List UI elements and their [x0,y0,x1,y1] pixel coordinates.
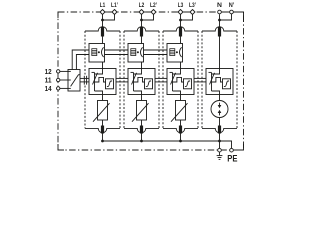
node L1 junction [101,19,104,22]
module 1 left dashed edge [84,31,86,75]
svg-text:N’: N’ [229,2,235,9]
wire spark gap box to control box module 3 [180,62,182,69]
contact K1 stub 11 [68,79,71,81]
wire pin to control box module 4 [219,37,221,69]
spark gap unit U3 (triggered spark gap box) [167,44,183,63]
spark gap U3 counter electrode arc [180,47,182,57]
wire N&#39; link [220,14,232,20]
control unit box module 1 [89,69,116,95]
svg-text:L1: L1 [100,2,106,9]
svg-text:L3’: L3’ [189,2,196,9]
control box module 2 bottom link [134,91,142,95]
wire control link 1-2 lower [116,81,128,83]
module 1 plug-in contact bottom (pin) [101,126,104,134]
control unit box module 2 [128,69,155,95]
wire control link 2-3 upper [155,77,167,79]
wire control link 2-3 lower [155,81,167,83]
spark gap U2 electrode tip [137,51,139,53]
wire control box to varistor module 1 [102,95,104,101]
control box module 1 disconnector pole [94,73,96,92]
enclosure corner top-right [232,12,244,22]
wire control link 3-4 lower [194,81,206,83]
module 1 top edge with socket arch [85,27,120,31]
terminal PE [218,148,222,152]
wire L2 terminal drop [141,14,143,27]
module 2 right dashed edge [158,31,160,128]
wire bottom pin to PE bus module 3 [180,134,182,142]
wire trigger link U2-U3 lower [144,54,168,56]
module 2 top edge with socket arch [124,27,159,31]
wire trigger feed lower [76,55,89,70]
control box module 4 disconnector blade [210,73,215,85]
spark gap unit U2 (triggered spark gap box) [128,44,144,63]
module 2 plug-in contact top (pin) [140,27,143,37]
spark gap U2 trigger stack [131,49,136,56]
N-PE spark gap F4 [211,101,228,118]
control box module 3 disconnector blade [171,73,176,85]
control box module 1 entry wire [95,69,103,75]
enclosure corner bottom-right [238,144,244,150]
control box module 4 trigger element [223,79,231,89]
terminal 14 [57,87,60,90]
wire L1 terminal drop [102,14,104,27]
module 4 right dashed edge [236,31,238,128]
wire trigger feed upper [72,50,89,70]
terminal L3 [178,10,183,15]
module 3 plug-in contact bottom (pin) [179,126,182,134]
wire signal coupling lower [80,81,89,83]
module 1 plug-in contact top (pin) [101,27,104,37]
control box module 1 disconnector tick [92,71,95,73]
terminal L3&#39; [190,10,195,15]
module 4 top edge with socket arch [202,27,237,31]
control box module 3 impedance step [173,77,184,82]
wire L1&#39; link [103,14,115,20]
wire control box to N-PE spark gap [219,95,221,101]
wire terminal 11 to contact box [60,79,68,81]
enclosure corner top-left [58,12,64,18]
svg-text:L1’: L1’ [111,2,118,9]
svg-text:L2: L2 [139,2,145,9]
wire control link 3-4 upper [194,77,206,79]
enclosure corner bottom-left [58,144,64,150]
varistor RV3 [176,101,186,121]
module 3 top edge with socket arch [163,27,198,31]
coupler bar right [86,76,88,85]
wire spark gap box to control box module 1 [102,62,104,69]
terminal PE&#39; [230,148,234,152]
node L3 junction [179,19,182,22]
wire pin to spark gap box module 3 [180,37,182,44]
wire trigger link U1-U2 lower [105,54,129,56]
control box module 4 disconnector pole [211,73,213,92]
wire varistor to bottom pin module 1 [102,120,104,126]
device enclosure (dash-dot boundary) [58,12,244,150]
wire control link 1-2 upper [116,77,128,79]
control box module 2 disconnector blade [132,73,137,85]
wire PE branch [220,141,232,148]
control box module 1 bottom link [95,91,103,95]
module 4 plug-in contact top (pin) [218,27,221,37]
contact K1 changeover blade [71,75,79,87]
control box module 2 entry wire [134,69,142,75]
wire bottom pin to PE bus module 2 [141,134,143,142]
wire pin to spark gap box module 2 [141,37,143,44]
module 3 left dashed edge [162,31,164,128]
terminal 11 [57,78,60,81]
wire signal coupling upper [80,77,89,79]
spark gap U2 counter electrode arc [141,47,143,57]
module 3 right dashed edge [197,31,199,128]
wire L3&#39; link [181,14,193,20]
coupler bar left [83,76,85,85]
wire terminal 12 to contact box [60,70,68,72]
control box module 3 trigger element [184,79,192,89]
control box module 4 entry wire [212,69,220,75]
control box module 4 impedance step [212,77,223,82]
svg-text:PE: PE [227,154,237,164]
contact K1 stub 12 [68,70,71,72]
module 2 plug-in contact bottom (pin) [140,126,143,134]
wire top edge solid link N-N' [220,11,232,13]
svg-text:14: 14 [45,84,52,93]
control box module 2 disconnector tick [131,71,134,73]
control unit box module 4 [206,69,233,95]
control box module 3 disconnector pole [172,73,174,92]
svg-text:L2’: L2’ [150,2,157,9]
contact K1 stub 14 [68,87,71,89]
module 1 right dashed edge [119,31,121,128]
control box module 3 entry wire [173,69,181,75]
control box module 3 bottom link [173,91,181,95]
ground symbol [219,152,221,155]
wire bottom pin to PE bus module 1 [102,134,104,142]
node L2 junction [140,19,143,22]
wire N-PE spark gap to bottom pin [219,118,221,126]
spark gap U1 trigger stack [92,49,97,56]
varistor RV2 [137,101,147,121]
wire PE drop [219,141,221,148]
spark gap U1 electrode tip [98,51,100,53]
control box module 2 impedance step [134,77,145,82]
control box module 2 trigger element [145,79,153,89]
wire varistor to bottom pin module 3 [180,120,182,126]
wire PE bus [103,140,220,142]
terminal N&#39; [230,10,234,14]
module 3 plug-in contact top (pin) [179,27,182,37]
wire control box to varistor module 2 [141,95,143,101]
node N junction [218,19,221,22]
wire L2&#39; link [142,14,154,20]
terminal L1&#39; [112,10,117,15]
control unit box module 3 [167,69,194,95]
wire L3 terminal drop [180,14,182,27]
control box module 4 disconnector tick [209,71,212,73]
wire trigger link U2-U3 upper [144,49,168,51]
wire control box to varistor module 3 [180,95,182,101]
terminal L2&#39; [151,10,156,15]
wire pin to spark gap box module 1 [102,37,104,44]
wire top edge solid link L1-L1' [103,11,115,13]
module 2 bottom edge with socket arch [124,128,159,132]
remote signalling contact box K1 [68,70,80,92]
spark gap U1 counter electrode arc [102,47,104,57]
module 2 left dashed edge [123,31,125,128]
control box module 1 impedance step [95,77,106,82]
terminal L2 [139,10,144,15]
wire top edge solid link L3-L3' [181,11,193,13]
control box module 1 trigger element [106,79,114,89]
wire terminal 14 to contact box [60,87,68,89]
module 3 bottom edge with socket arch [163,128,198,132]
varistor RV1 [98,101,108,121]
terminal 12 [57,70,60,73]
svg-text:N: N [217,2,222,9]
wire spark gap box to control box module 2 [141,62,143,69]
node PE bus junction module 1 [101,140,104,143]
terminal N [218,10,222,14]
control box module 1 disconnector blade [93,73,98,85]
spark gap U3 trigger stack [170,49,175,56]
wire trigger link U1-U2 upper [105,49,129,51]
node PE bus junction module 2 [140,140,143,143]
module 4 plug-in contact bottom (pin) [218,126,221,134]
module 1 bottom edge with socket arch [85,128,120,132]
module 4 bottom edge with socket arch [202,128,237,132]
contact K1 pole stub [78,74,80,76]
control box module 2 disconnector pole [133,73,135,92]
control box module 4 bottom link [212,91,220,95]
control box module 3 disconnector tick [170,71,173,73]
spark gap U3 electrode tip [176,51,178,53]
wire varistor to bottom pin module 2 [141,120,143,126]
wire bottom pin to PE bus module 4 [219,134,221,142]
spark gap unit U1 (triggered spark gap box) [89,44,105,63]
svg-text:L3: L3 [178,2,184,9]
wire top edge solid link L2-L2' [142,11,154,13]
wire N terminal drop [219,14,221,27]
node PE bus junction module 4 [218,140,221,143]
node PE bus junction module 3 [179,140,182,143]
module 4 left dashed edge [201,31,203,128]
terminal L1 [100,10,105,15]
